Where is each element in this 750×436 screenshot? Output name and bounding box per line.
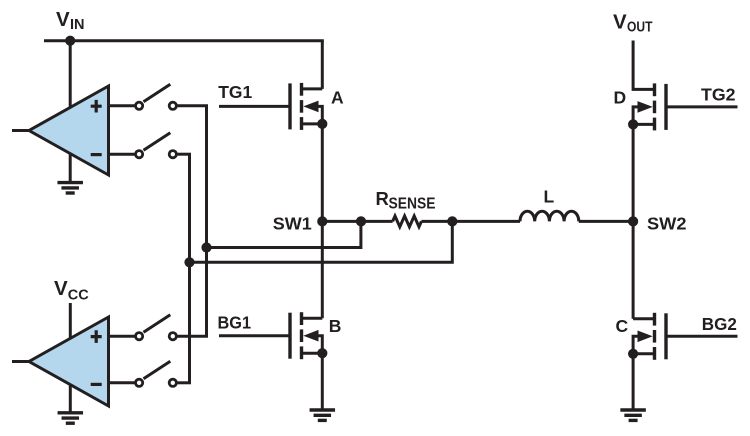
node junction on VIN rail: [65, 36, 75, 46]
wire U1 plus output: [109, 104, 136, 107]
node junction plus rail: [201, 242, 211, 252]
svg-text:SENSE: SENSE: [389, 196, 436, 213]
svg-text:V: V: [54, 277, 68, 300]
wire plus rail to RSENSE left: [207, 221, 361, 247]
svg-text:L: L: [544, 187, 555, 207]
svg-text:TG2: TG2: [701, 85, 736, 105]
switch S2 (U1 minus): [136, 133, 177, 158]
wire plus rail vertical: [205, 106, 208, 336]
svg-text:CC: CC: [68, 288, 89, 304]
switch S1 (U1 plus): [136, 84, 177, 109]
wire TG2 gate lead: [666, 105, 738, 108]
svg-text:IN: IN: [70, 17, 85, 33]
wire S1 to plus rail: [177, 104, 208, 107]
wire U1 ground lead: [69, 152, 72, 181]
svg-text:R: R: [376, 188, 389, 209]
wire minus rail vertical: [188, 154, 191, 383]
svg-text:SW1: SW1: [273, 213, 312, 233]
wire SW1 to RSENSE: [322, 220, 361, 223]
ground under U2: [58, 413, 84, 423]
wire U1 minus output: [109, 153, 136, 156]
wire VIN rail: [44, 39, 324, 42]
wire BG1 gate lead: [219, 334, 290, 337]
transistor B (bottom NMOS left): [290, 312, 322, 359]
wire BG2 gate lead: [666, 335, 738, 338]
wire U1 supply: [69, 41, 72, 108]
svg-text:BG1: BG1: [218, 313, 252, 333]
wire S2 to minus rail: [177, 153, 191, 156]
wire L to SW2: [579, 220, 633, 223]
wire U2 supply: [69, 303, 72, 339]
wire SW2 to C drain: [632, 221, 635, 318]
wire RSENSE to L: [452, 220, 520, 223]
op-amp U2: [29, 317, 109, 406]
wire S3 to plus rail: [177, 335, 208, 338]
label VIN: [56, 8, 85, 33]
wire U2 ground lead: [69, 383, 72, 412]
wire U2 plus output: [109, 335, 136, 338]
svg-text:V: V: [56, 8, 70, 31]
node C source junction: [628, 349, 638, 359]
svg-text:TG1: TG1: [218, 82, 252, 102]
node SW1: [317, 216, 327, 226]
wire A source to B drain (SW1 vertical): [321, 124, 324, 318]
node D source junction: [628, 119, 638, 129]
wire VOUT to D drain: [633, 41, 654, 90]
label VCC: [54, 277, 89, 304]
label VOUT: [613, 10, 653, 35]
label RSENSE: [376, 188, 436, 213]
svg-text:V: V: [613, 10, 627, 33]
node SW2: [628, 216, 638, 226]
node RSENSE right junction: [447, 216, 457, 226]
wire U1 output stub: [12, 129, 30, 132]
resistor RSENSE: [361, 216, 452, 227]
svg-text:B: B: [329, 316, 342, 336]
switch S3 (U2 plus): [136, 315, 177, 340]
wire TG1 gate lead: [219, 105, 290, 108]
ground under C: [620, 410, 646, 420]
switch S4 (U2 minus): [136, 361, 177, 386]
node junction minus rail: [184, 257, 194, 267]
ground under B: [310, 410, 336, 420]
wire U2 output stub: [12, 360, 30, 363]
svg-text:OUT: OUT: [627, 19, 653, 35]
wire D source to SW2: [632, 124, 635, 221]
svg-text:BG2: BG2: [702, 314, 737, 334]
ground under U1: [57, 183, 82, 193]
wire minus rail to RSENSE right: [190, 221, 453, 262]
op-amp U1: [29, 86, 109, 175]
node B source junction: [317, 348, 327, 358]
svg-text:A: A: [331, 88, 344, 108]
wire U2 minus output: [109, 381, 136, 384]
svg-text:D: D: [614, 88, 627, 108]
transistor A (top NMOS left): [290, 83, 322, 130]
wire S4 to minus rail: [177, 381, 191, 384]
node A source junction: [317, 119, 327, 129]
node RSENSE left junction: [356, 216, 366, 226]
wire B source to ground: [321, 353, 324, 409]
transistor C (bottom NMOS right): [633, 313, 666, 360]
wire A drain to VIN rail: [321, 41, 324, 89]
wire C source to ground: [632, 354, 635, 409]
transistor D (top NMOS right): [633, 83, 666, 130]
svg-text:SW2: SW2: [647, 214, 687, 234]
inductor L: [520, 211, 579, 221]
svg-text:C: C: [616, 316, 629, 336]
